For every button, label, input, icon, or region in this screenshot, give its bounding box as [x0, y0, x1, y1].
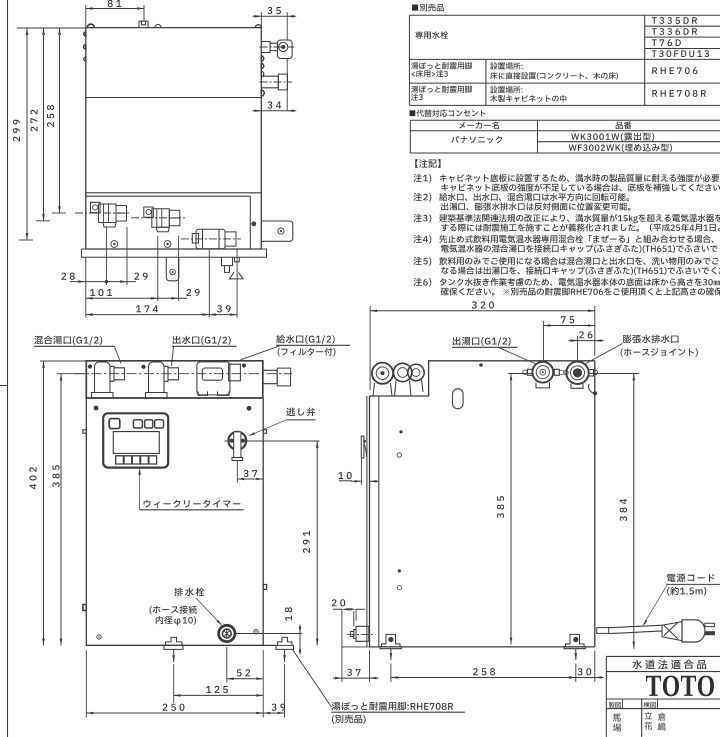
leader drain plug: [196, 598, 222, 626]
dim 384 side: [633, 374, 636, 649]
dim label 250: [163, 704, 185, 711]
front view: pipe 2: [146, 362, 179, 398]
dim 258 side: [391, 676, 576, 679]
dim 385 side: [510, 374, 513, 645]
side view: rear drain fitting: [347, 611, 376, 641]
note 1 line 1: [414, 174, 720, 183]
label drain plug: [150, 588, 205, 626]
dim label 81: [108, 0, 122, 7]
note 3 line 2: [441, 224, 720, 232]
dim label 35: [267, 7, 281, 14]
plan view: elbow 1 inner lines: [104, 204, 127, 223]
title: water law compliant: [632, 660, 706, 670]
dim label 29 a: [134, 273, 147, 280]
cell: T336DR: [652, 28, 697, 35]
label seismic foot RHE708R: [331, 702, 465, 724]
plan view: tank top line: [86, 97, 261, 99]
dim 18: [299, 625, 302, 655]
dim 20 side: [333, 608, 365, 682]
front view: pipe 1: [92, 362, 125, 398]
plan view: manifold screw 2: [164, 241, 171, 248]
side view: power plug prongs: [705, 623, 715, 635]
plan view: relief outlet centerline: [260, 46, 295, 48]
side view: feet: [380, 634, 586, 648]
cell: T76D: [652, 39, 681, 46]
dim label 125: [206, 686, 228, 693]
plan view: elbow 2 (hot water outlet): [144, 207, 180, 232]
side view: inner left panel line: [367, 396, 379, 647]
plan view: inlet fitting (horizontal): [192, 229, 236, 249]
side view: power plug body: [682, 620, 705, 642]
dim label 37 valve: [244, 470, 257, 477]
plan view: manifold screw 1: [111, 241, 118, 248]
heading alternative outlets: [409, 110, 485, 117]
plan view: top bump: [155, 24, 161, 27]
dim 385 front: [60, 374, 63, 646]
sheet left border line: [0, 0, 8, 737]
table 1 frame: [409, 15, 720, 105]
note 3 line 1: [414, 214, 720, 223]
plan view: main body outline: [86, 28, 261, 249]
leader outlet port: [172, 346, 174, 366]
front view: manifold screws: [88, 363, 258, 639]
front view: weekly timer panel: [103, 413, 168, 467]
leader mixing port: [114, 346, 121, 363]
side view: plug cord clamp: [662, 622, 682, 641]
table 2 frame: [410, 120, 720, 153]
label relief valve: [286, 407, 316, 419]
plan view: elbow 2 centerline: [131, 217, 185, 219]
dim label 30 side: [578, 668, 592, 675]
dim label 39 b: [272, 704, 286, 711]
dim 52: [227, 677, 263, 680]
plan view: left edge lugs: [84, 32, 86, 61]
dim 75 ext line: [543, 321, 545, 360]
plan view: elbow 1 (mixing outlet): [91, 202, 127, 227]
note 4 line 1: [414, 235, 714, 244]
cell: seismic foot cabinet: [411, 86, 472, 101]
title: checker names: [644, 712, 665, 731]
cell: dedicated faucet: [415, 31, 448, 38]
dim 81 extension lines: [86, 5, 144, 28]
side bottom ext lines: [370, 650, 595, 682]
dim 39 b: [263, 712, 284, 715]
plan bottom ext lines: [86, 227, 237, 318]
dim label 37 side: [347, 669, 360, 676]
note 6 line 2: [441, 288, 720, 296]
plan view: manifold inner right line: [249, 196, 251, 249]
leader weekly timer: [138, 468, 141, 510]
dim label 320: [472, 301, 494, 308]
dim label 75: [561, 316, 574, 323]
side view: left wall bracket: [361, 436, 366, 458]
front view: pipe manifold section: [86, 361, 262, 398]
side view: rear pipes (end view): [372, 363, 424, 396]
side view: power cord: [609, 625, 662, 633]
side view: outline: [370, 361, 595, 647]
dim 30 side: [567, 676, 604, 679]
side view: top fitting (expansion drain): [564, 362, 598, 396]
side view: power cord grommet: [597, 628, 609, 634]
dim label 258: [47, 105, 54, 127]
dim 34 extension lines: [286, 59, 288, 112]
front view: bottom edge between feet: [86, 644, 276, 646]
dim 26: [569, 339, 604, 342]
dim 272: [36, 28, 50, 221]
table 1 column lines: [486, 15, 645, 105]
plan view: relief outlet pipe: [261, 42, 277, 53]
plan view: under-plate drain parts: [222, 257, 244, 279]
dim label 258 side: [473, 668, 495, 675]
plan view: inlet fitting centerline: [181, 238, 241, 240]
dim 291: [316, 441, 319, 645]
front view: timer power button: [109, 419, 120, 429]
plan top extension line for left dims: [17, 27, 86, 29]
side view: top screw dot: [479, 363, 483, 367]
label expansion drain: [621, 335, 698, 357]
plan view: elbow 2 inner lines: [157, 209, 180, 228]
note 5 line 1: [414, 257, 720, 266]
dim 37 side: [333, 677, 379, 680]
label inlet port: [276, 335, 350, 357]
dim label 291: [303, 531, 310, 553]
dim 384 side ext: [589, 373, 639, 375]
dim label 272: [30, 110, 37, 132]
dim 10 side: [351, 459, 379, 485]
dim label 299: [13, 120, 20, 142]
dim 37 valve ext: [236, 461, 238, 483]
cell: T335DR: [652, 17, 697, 24]
leader seismic foot: [293, 650, 332, 708]
plan view: manifold dot: [251, 221, 256, 226]
front view: drain plug: [219, 625, 235, 641]
plan view: relief outlet bolt circle: [279, 42, 288, 51]
plan view: top-right corner bump: [255, 25, 261, 28]
cell: installation floor: [490, 62, 618, 79]
title block frame: [606, 656, 720, 737]
dim 37 valve: [237, 478, 263, 481]
cell: panasonic: [451, 136, 502, 143]
cell: installation cabinet: [490, 86, 566, 102]
dim 402 ext lines: [40, 361, 86, 374]
plan view: top clip bracket: [139, 21, 148, 27]
title: checked label: [644, 699, 658, 709]
dim 320: [370, 310, 595, 313]
dim label 39 a: [217, 305, 231, 312]
label power cord: [666, 574, 720, 596]
dim 28 and 29 chain line: [70, 280, 136, 283]
dim 39 a: [209, 313, 237, 316]
leader inlet port: [241, 345, 282, 360]
side view: feet anchor arrows: [390, 649, 577, 660]
dim label 20 side: [332, 599, 345, 606]
notes heading: [415, 159, 440, 167]
dim label 385 side: [497, 496, 504, 518]
dim label 402: [29, 467, 36, 489]
cell: RHE708R: [652, 90, 706, 97]
dim 258: [52, 28, 66, 213]
plan view: right mounting bracket: [261, 221, 293, 241]
cell: T30FDU13: [652, 50, 709, 57]
plan view: right edge lugs: [261, 56, 264, 96]
label weekly timer: [140, 500, 244, 510]
plan view: side pipe centerline: [260, 81, 293, 83]
leader hot water outlet: [498, 347, 536, 364]
note 2 line 1: [414, 193, 630, 202]
leader power cord: [643, 585, 667, 626]
dim 299: [19, 28, 33, 240]
front view: right edge tabs: [83, 430, 267, 611]
dim 34: [252, 109, 296, 112]
dim label 385 front: [52, 465, 59, 487]
plan view: under-plate bracket: [166, 257, 179, 281]
front view: timer top buttons: [133, 420, 163, 428]
plan view: base plate: [82, 249, 267, 257]
dim label 34: [267, 101, 281, 108]
note 5 line 2: [441, 266, 720, 275]
dim 29 b: [158, 297, 187, 300]
front view: timer display: [113, 432, 159, 454]
dim 101: [86, 297, 158, 300]
cell: WK3001W: [571, 133, 654, 141]
side view: left panel dots: [397, 430, 403, 590]
table 2 row line: [538, 141, 720, 143]
label outlet port: [172, 336, 237, 347]
plan view: top-left corner elbow bump: [87, 24, 94, 28]
front view: pipes centerline: [74, 373, 292, 375]
leader expansion drain: [584, 344, 623, 365]
plan view: side pipe: [261, 76, 278, 88]
side view: oval slot: [453, 389, 464, 409]
plan view: relief outlet plate: [278, 40, 293, 59]
note 4 line 2: [441, 244, 720, 253]
dim 291 ext: [224, 440, 319, 442]
dim 35 extension lines: [261, 12, 287, 40]
dim 75: [544, 324, 595, 327]
dim label 18: [285, 607, 292, 621]
dim 402: [42, 361, 45, 645]
cell: RHE706: [652, 67, 697, 74]
title: drafter name: [613, 714, 621, 732]
label hot water outlet: [452, 337, 518, 348]
front view: main cabinet outline: [86, 398, 263, 645]
TOTO logo: [646, 676, 714, 697]
front bottom ext lines: [86, 647, 284, 718]
front view: inlet external pipe: [263, 368, 290, 386]
cell: WF3002WK: [569, 144, 672, 152]
dim 174: [86, 313, 210, 316]
plan view: elbow 1 centerline: [75, 212, 131, 214]
dim 125: [174, 694, 264, 697]
dim 35: [252, 15, 296, 18]
front view: relief valve: [228, 432, 246, 461]
leader relief valve: [248, 420, 286, 436]
note 1 line 2: [441, 184, 720, 192]
dim label 10 side: [338, 472, 352, 481]
dim 320 ext lines: [370, 306, 595, 390]
dim 385 side ext: [508, 373, 533, 375]
plan view: side pipe nut: [278, 74, 287, 90]
note 6 line 1: [414, 278, 720, 287]
dim 250: [86, 712, 263, 715]
dim label 26: [579, 331, 592, 338]
table 1 row lines (faucet rows): [645, 26, 720, 48]
label mixing port: [34, 336, 115, 347]
dim label 384 side: [620, 499, 627, 521]
note 2 line 2: [441, 203, 630, 211]
dim 81: [86, 7, 144, 10]
plan view: manifold top lines: [86, 193, 261, 196]
cell: seismic foot floor: [411, 62, 472, 77]
dim label 52: [237, 669, 250, 676]
dim label 29 b: [186, 289, 199, 296]
front view: inlet assembly: [197, 362, 241, 396]
dim label 101: [90, 289, 112, 296]
dim 26 ext line: [577, 336, 579, 360]
front view: left foot: [164, 637, 183, 662]
front view: right foot: [276, 637, 294, 662]
dim 18 ext: [236, 633, 302, 635]
side view bottom-left ext: [342, 646, 370, 648]
title: drafted label: [609, 699, 623, 709]
side view: top fitting (hot water outlet): [523, 362, 564, 388]
heading optional parts: [412, 4, 444, 12]
dim label 28: [61, 273, 74, 280]
front view: timer bottom buttons: [116, 456, 157, 464]
cell: product number header: [616, 122, 632, 130]
dim label 174: [136, 305, 158, 312]
cell: maker name header: [459, 122, 499, 130]
